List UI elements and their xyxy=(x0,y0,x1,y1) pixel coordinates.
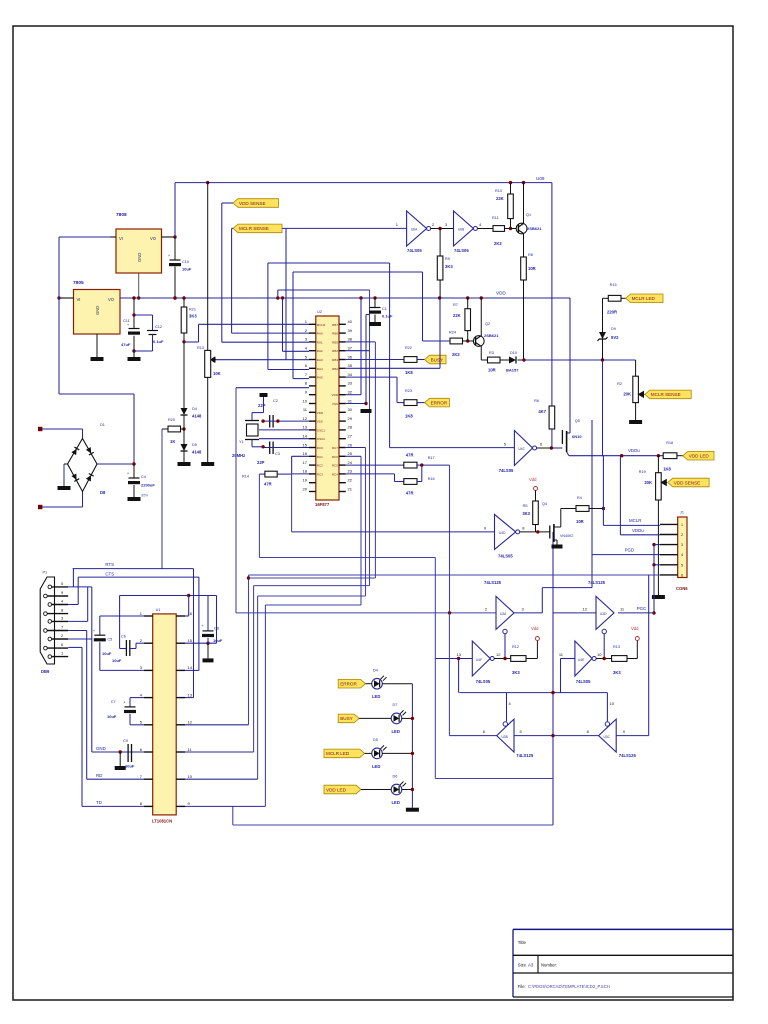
wire pin34 ERROR elbow xyxy=(346,376,397,378)
pin 4 U1 xyxy=(144,697,153,699)
svg-text:47uF: 47uF xyxy=(121,342,131,347)
resistor R4 10R xyxy=(561,508,576,510)
svg-text:+: + xyxy=(127,323,129,327)
svg-text:VSS: VSS xyxy=(332,402,338,406)
svg-text:35: 35 xyxy=(348,363,353,368)
pin 6 P1 xyxy=(44,646,48,650)
svg-text:R21: R21 xyxy=(189,308,196,312)
pin 16 U2 xyxy=(309,455,316,457)
svg-text:74LS125: 74LS125 xyxy=(588,580,606,585)
svg-text:3K3: 3K3 xyxy=(445,264,453,269)
svg-text:22: 22 xyxy=(348,478,353,483)
wire bridge output xyxy=(97,463,134,465)
svg-text:30: 30 xyxy=(348,407,353,412)
svg-text:5V2: 5V2 xyxy=(611,335,619,340)
svg-text:19: 19 xyxy=(303,478,308,483)
wire U3D input xyxy=(553,612,596,614)
svg-text:31: 31 xyxy=(348,398,353,403)
svg-text:U1: U1 xyxy=(156,608,161,612)
svg-text:RB2: RB2 xyxy=(332,367,338,371)
ground C1 xyxy=(369,322,381,326)
ground 7805 xyxy=(91,357,104,361)
svg-text:3K3: 3K3 xyxy=(522,511,530,516)
capacitor C6 10uF xyxy=(125,640,127,656)
wire pin32 VDD xyxy=(346,394,361,396)
resistor R14 47R xyxy=(259,473,265,475)
wire U6A out xyxy=(431,228,454,230)
wire pin37 vertical xyxy=(369,290,371,586)
pin 33 U2 xyxy=(339,385,346,387)
svg-text:D8: D8 xyxy=(100,490,106,495)
pin 10 U1 xyxy=(176,778,185,780)
pin 5 U2 xyxy=(309,359,316,361)
svg-text:39: 39 xyxy=(348,328,353,333)
svg-text:RA1: RA1 xyxy=(317,340,323,344)
svg-text:GND: GND xyxy=(95,306,100,315)
wire MCLR LED to LED xyxy=(365,752,372,754)
svg-text:D1: D1 xyxy=(100,423,105,427)
wire U09 drop to R6 xyxy=(551,183,553,406)
ground D5 xyxy=(178,462,191,466)
svg-text:C5: C5 xyxy=(107,638,112,642)
pin 4 P1 xyxy=(48,603,52,607)
svg-text:R19: R19 xyxy=(639,470,646,474)
svg-text:TD: TD xyxy=(96,800,102,805)
svg-text:R10: R10 xyxy=(495,189,502,193)
pin 12 U1 xyxy=(176,724,185,726)
svg-text:74LS05: 74LS05 xyxy=(576,679,591,684)
pin 14 U2 xyxy=(309,438,316,440)
svg-text:12: 12 xyxy=(188,720,193,725)
svg-text:RB4: RB4 xyxy=(332,349,338,353)
wire 7808 GND stem xyxy=(138,273,140,298)
svg-text:10K: 10K xyxy=(213,371,221,376)
svg-text:VDDu: VDDu xyxy=(632,528,644,533)
node R4 right xyxy=(602,507,605,510)
svg-text:34: 34 xyxy=(348,372,353,377)
svg-text:RA3: RA3 xyxy=(317,358,323,362)
pin 21 U2 xyxy=(339,491,346,493)
pin 2 U2 xyxy=(309,332,316,334)
net MCLR SENSE label right xyxy=(645,390,691,399)
svg-text:RC7: RC7 xyxy=(332,446,338,450)
svg-text:RB6: RB6 xyxy=(332,332,338,336)
pin 37 U2 xyxy=(339,350,346,352)
capacitor C2 22P xyxy=(269,415,271,428)
wire pin23 RC4 xyxy=(346,473,395,475)
svg-text:14: 14 xyxy=(188,665,193,670)
wire RA3 branch xyxy=(285,228,287,359)
wire U3A out to PGD riser xyxy=(514,612,542,614)
pin 9 U1 xyxy=(176,805,185,807)
svg-text:VDD SENSE: VDD SENSE xyxy=(674,480,701,485)
buffer U3C 74LS125 xyxy=(599,719,617,752)
capacitor C5 10uF xyxy=(100,615,144,617)
svg-text:2200uF: 2200uF xyxy=(141,483,155,488)
wire TD xyxy=(82,805,144,807)
svg-text:220R: 220R xyxy=(607,310,617,315)
svg-text:18: 18 xyxy=(303,469,308,474)
svg-text:VDD: VDD xyxy=(332,393,339,397)
svg-text:R5: R5 xyxy=(523,504,528,508)
pin 23 U2 xyxy=(339,473,346,475)
svg-text:MCLR: MCLR xyxy=(317,323,326,327)
pin 9 P1 xyxy=(44,594,48,598)
wire U4D out to Q4 xyxy=(520,531,550,533)
wire pin35 to VDD xyxy=(346,367,440,369)
svg-text:D9: D9 xyxy=(611,327,616,331)
svg-text:C:\PDOS\ORCAD\TEMPLATE\ICD2_P.: C:\PDOS\ORCAD\TEMPLATE\ICD2_P.SCH xyxy=(528,984,610,989)
pin 3 P1 xyxy=(48,620,52,624)
resistor R20 1K xyxy=(168,426,181,432)
wire U3C in xyxy=(616,735,649,737)
title block xyxy=(513,928,733,930)
wire PGC to pins 3 5 xyxy=(653,545,655,613)
svg-text:33: 33 xyxy=(348,381,353,386)
svg-text:C2: C2 xyxy=(273,399,278,403)
node R17 xyxy=(420,463,423,466)
svg-text:29: 29 xyxy=(348,416,353,421)
svg-text:U4E: U4E xyxy=(578,658,584,662)
svg-text:10uF: 10uF xyxy=(102,651,112,656)
net BUSY label led xyxy=(338,714,359,723)
net VDD LED label led xyxy=(324,785,361,794)
svg-text:U6A: U6A xyxy=(411,228,418,232)
wire MCLR to CON6 xyxy=(603,524,660,526)
pin 30 U2 xyxy=(339,411,346,413)
svg-text:47R: 47R xyxy=(406,491,414,496)
wire pin24 RC5 xyxy=(346,464,404,466)
svg-text:20K: 20K xyxy=(644,480,652,485)
wire GND to DB9 xyxy=(91,587,93,752)
svg-text:Vdd: Vdd xyxy=(631,626,639,631)
svg-text:LT1081CN: LT1081CN xyxy=(152,819,172,824)
wire bottom bus xyxy=(233,824,553,826)
resistor R5 3K3 xyxy=(535,491,537,502)
svg-text:D5: D5 xyxy=(373,738,378,742)
terminal input bottom xyxy=(38,505,42,509)
wire RA5 to Q2 loop xyxy=(293,271,423,273)
svg-text:RA5: RA5 xyxy=(317,376,323,380)
pin 7 U1 xyxy=(144,778,153,780)
svg-text:LED: LED xyxy=(372,694,380,699)
LED D6 xyxy=(391,784,402,795)
svg-text:22K: 22K xyxy=(453,313,461,318)
resistor R17 47R xyxy=(404,462,417,468)
wire bus h605 xyxy=(265,604,361,606)
wire MCLR SENSE to U6A xyxy=(232,227,233,229)
svg-text:VDD LED: VDD LED xyxy=(326,787,347,792)
ground bridge xyxy=(58,486,71,490)
net ERROR label led xyxy=(338,679,365,688)
wire U4E input xyxy=(561,658,575,660)
pin 39 U2 xyxy=(339,332,346,334)
wire Q2 base loop xyxy=(423,340,451,342)
svg-text:DB9: DB9 xyxy=(41,669,50,674)
svg-text:10uF: 10uF xyxy=(125,764,135,769)
pin 29 U2 xyxy=(339,420,346,422)
svg-text:Q1: Q1 xyxy=(526,213,531,217)
svg-text:ERROR: ERROR xyxy=(431,400,448,405)
ground C11 xyxy=(128,357,141,361)
resistor R8 10R xyxy=(521,257,527,280)
svg-text:D6: D6 xyxy=(393,774,398,778)
wire MCLR SENSE to pin2 xyxy=(231,228,233,333)
svg-text:MCLR: MCLR xyxy=(629,518,641,523)
svg-text:3K3: 3K3 xyxy=(512,670,520,675)
capacitor C1 0.1uF xyxy=(374,298,376,308)
svg-text:U3C: U3C xyxy=(604,735,611,739)
svg-text:MCLR LED: MCLR LED xyxy=(632,296,656,301)
svg-text:U4C: U4C xyxy=(519,447,526,451)
svg-text:VO: VO xyxy=(150,236,157,241)
svg-text:+: + xyxy=(127,472,129,476)
svg-text:13: 13 xyxy=(457,652,462,657)
svg-text:LED: LED xyxy=(392,729,400,734)
pin 5 U1 xyxy=(144,724,153,726)
svg-text:47R: 47R xyxy=(406,453,414,458)
wire U6B out xyxy=(477,228,493,230)
svg-text:A3: A3 xyxy=(528,963,534,968)
svg-text:22K: 22K xyxy=(496,196,504,201)
wire U4D input xyxy=(292,531,495,533)
buffer U3D 74LS125 xyxy=(596,596,614,629)
net VDD LED label xyxy=(683,451,714,460)
wire crystal gnd stem xyxy=(263,397,265,413)
svg-text:MCLR LED: MCLR LED xyxy=(326,751,350,756)
terminal input top xyxy=(38,427,42,431)
svg-text:26: 26 xyxy=(348,442,353,447)
svg-text:File:: File: xyxy=(518,984,526,989)
svg-text:74LS05: 74LS05 xyxy=(407,248,422,253)
wire U09 top rail xyxy=(175,182,552,184)
pin 6 U1 xyxy=(144,751,153,753)
pin 18 U2 xyxy=(309,473,316,475)
pin 2 U1 xyxy=(144,642,153,644)
mosfet Q5 BS170 xyxy=(561,430,563,444)
wire PGD riser xyxy=(591,420,593,588)
diode D10 BA157 xyxy=(509,357,516,364)
svg-text:1K8: 1K8 xyxy=(663,467,671,472)
pin 3 U2 xyxy=(309,341,316,343)
pin 20 U2 xyxy=(309,491,316,493)
diode D9 zener 5V2 xyxy=(602,298,604,332)
svg-text:VSS: VSS xyxy=(317,420,323,424)
pin 7 U2 xyxy=(309,376,316,378)
pin 8 U2 xyxy=(309,385,316,387)
net MCLR LED label led xyxy=(324,749,365,758)
svg-text:21: 21 xyxy=(348,486,353,491)
pin 28 U2 xyxy=(339,429,346,431)
svg-text:R23: R23 xyxy=(405,389,412,393)
svg-text:RC4: RC4 xyxy=(332,472,338,476)
svg-text:RB7: RB7 xyxy=(332,323,338,327)
resistor R10 22K xyxy=(510,183,512,194)
svg-text:14: 14 xyxy=(303,434,308,439)
svg-text:20: 20 xyxy=(303,486,308,491)
resistor R6 4K7 xyxy=(549,406,555,429)
wire VDD LED to LED xyxy=(361,789,391,791)
wire pin16 net xyxy=(120,595,217,597)
wire loop bottom xyxy=(434,558,436,779)
svg-text:R17: R17 xyxy=(428,456,435,460)
wire R20 to RTS xyxy=(161,429,163,569)
pin 24 U2 xyxy=(339,464,346,466)
svg-text:MCLR SENSE: MCLR SENSE xyxy=(651,392,681,397)
node U4C out xyxy=(550,446,553,449)
svg-text:C3: C3 xyxy=(275,452,280,456)
wire U4E out xyxy=(596,658,612,660)
svg-text:10R: 10R xyxy=(528,266,536,271)
wire ERROR to LED xyxy=(366,683,372,685)
svg-text:+: + xyxy=(93,629,95,633)
pin 36 U2 xyxy=(339,359,346,361)
svg-text:D4: D4 xyxy=(373,669,378,673)
svg-text:PGD: PGD xyxy=(625,548,635,553)
transistor Q2 2SB621 xyxy=(473,336,484,347)
wire RD xyxy=(87,778,144,780)
resistor R7 22K xyxy=(467,298,469,309)
pin 38 U2 xyxy=(339,341,346,343)
svg-text:PGC: PGC xyxy=(637,606,647,611)
svg-text:3K3: 3K3 xyxy=(613,670,621,675)
svg-text:U09: U09 xyxy=(536,176,545,181)
resistor R21 3K3 xyxy=(183,298,185,307)
IC U2 16F877 xyxy=(316,316,339,500)
svg-text:Q4: Q4 xyxy=(542,502,547,506)
svg-text:R4: R4 xyxy=(577,496,582,500)
LED D4 xyxy=(372,678,383,689)
wire bus h596 xyxy=(258,595,366,597)
svg-text:ERROR: ERROR xyxy=(340,682,357,687)
ground C9 xyxy=(119,752,121,766)
wire VDD SENSE xyxy=(222,202,233,204)
svg-text:47R: 47R xyxy=(264,482,272,487)
svg-text:4148: 4148 xyxy=(192,450,202,455)
regulator U10 7808 xyxy=(116,229,162,273)
wire BUSY to LED xyxy=(359,717,391,719)
svg-text:4148: 4148 xyxy=(192,414,202,419)
pin 12 U2 xyxy=(309,420,316,422)
wire pin13 OSC1 xyxy=(259,429,309,431)
pin 25 U2 xyxy=(339,455,346,457)
wire R21 to pin1 xyxy=(184,341,199,343)
pin 4 J1 xyxy=(660,554,678,556)
pin 2 J1 xyxy=(660,534,678,536)
pin 1 U1 xyxy=(144,615,153,617)
svg-text:RA4: RA4 xyxy=(317,367,323,371)
wire pin9 riser xyxy=(185,805,265,807)
wire U3B out xyxy=(449,735,496,737)
buffer U4D 74LS05 xyxy=(495,514,516,549)
connector P1 DB9 xyxy=(40,577,54,664)
ground Q4 xyxy=(552,545,563,549)
ground C4 xyxy=(128,497,141,501)
resistor R24 2K2 xyxy=(450,338,463,344)
svg-text:3: 3 xyxy=(681,543,683,547)
diode D5 4148 xyxy=(183,429,185,444)
svg-text:22P: 22P xyxy=(257,460,265,465)
svg-text:Y1: Y1 xyxy=(239,440,244,444)
svg-text:U6B: U6B xyxy=(458,228,464,232)
svg-text:37: 37 xyxy=(348,346,353,351)
svg-text:R20: R20 xyxy=(168,418,175,422)
svg-text:10: 10 xyxy=(597,652,602,657)
transistor Q1 2SB621 xyxy=(516,223,527,234)
svg-text:R7: R7 xyxy=(453,303,458,307)
svg-text:4: 4 xyxy=(681,553,683,557)
pin 6 U2 xyxy=(309,367,316,369)
buffer U3A 74LS125 xyxy=(496,596,514,629)
net MCLR LED label xyxy=(626,294,663,303)
ground LEDs xyxy=(406,808,419,812)
capacitor C3 22P xyxy=(269,442,271,455)
svg-text:VO: VO xyxy=(108,297,115,302)
pin 27 U2 xyxy=(339,438,346,440)
resistor R16 47R xyxy=(404,479,417,485)
svg-text:10R: 10R xyxy=(576,519,584,524)
ground crystal xyxy=(260,393,268,397)
wire U3D out PGC xyxy=(618,612,654,614)
pin 2 P1 xyxy=(48,637,52,641)
wire VDD rail corner to Q5 drain xyxy=(569,298,571,433)
svg-text:R6: R6 xyxy=(534,399,539,403)
svg-text:VDD: VDD xyxy=(317,411,324,415)
svg-text:R22: R22 xyxy=(405,346,412,350)
capacitor C8 10uF xyxy=(207,596,209,631)
svg-text:32: 32 xyxy=(348,390,353,395)
svg-text:10: 10 xyxy=(303,398,308,403)
wire U4C out xyxy=(537,447,552,449)
wire LED to common xyxy=(382,683,412,685)
wire DB9 pin4 CTS xyxy=(68,604,78,606)
svg-text:22P: 22P xyxy=(258,403,266,408)
wire pin15 RC0 xyxy=(263,447,309,449)
svg-text:U3A: U3A xyxy=(500,612,507,616)
svg-text:6N10: 6N10 xyxy=(572,434,582,439)
svg-text:R18: R18 xyxy=(666,441,673,445)
wire U4F input xyxy=(435,658,472,660)
svg-text:12: 12 xyxy=(303,416,308,421)
svg-text:10: 10 xyxy=(610,701,615,706)
pin 31 U2 xyxy=(339,403,346,405)
svg-text:1K: 1K xyxy=(170,439,175,444)
pin 35 U2 xyxy=(339,367,346,369)
svg-text:VDD LED: VDD LED xyxy=(689,454,710,459)
wire RTS xyxy=(73,568,194,570)
wire pin8 row xyxy=(236,387,309,389)
svg-text:U3D: U3D xyxy=(600,612,607,616)
pin 26 U2 xyxy=(339,447,346,449)
node U09 junctions xyxy=(206,181,209,184)
svg-text:RC5: RC5 xyxy=(332,464,338,468)
pin 1 P1 xyxy=(48,655,52,659)
svg-text:C6: C6 xyxy=(121,635,126,639)
pin 16 U1 xyxy=(176,615,185,617)
svg-text:RC6: RC6 xyxy=(332,455,338,459)
buffer U4E 74LS05 xyxy=(575,641,592,676)
ground C8 xyxy=(203,658,214,662)
svg-text:13: 13 xyxy=(188,692,193,697)
svg-text:7808: 7808 xyxy=(116,212,127,218)
svg-text:R16: R16 xyxy=(428,477,435,481)
svg-text:74LS05: 74LS05 xyxy=(499,468,514,473)
svg-text:74LS05: 74LS05 xyxy=(454,248,469,253)
wire bus h557 xyxy=(259,557,435,559)
svg-text:7805: 7805 xyxy=(73,280,84,286)
svg-text:2SB621: 2SB621 xyxy=(484,333,499,338)
wire pin36 BUSY xyxy=(346,359,404,361)
